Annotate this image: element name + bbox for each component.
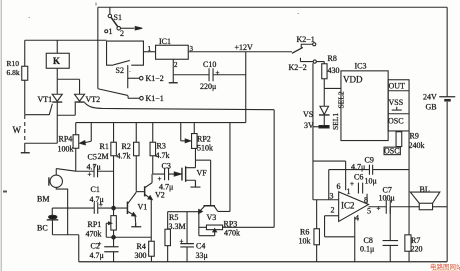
svg-text:IC1: IC1 [159,37,171,46]
svg-text:+: + [98,240,102,248]
svg-text:BM: BM [37,195,49,204]
svg-text:VS: VS [303,110,313,119]
svg-text:VT1: VT1 [38,95,53,104]
svg-text:K: K [53,56,60,66]
svg-text:V2: V2 [155,191,165,200]
svg-text:R10: R10 [7,59,20,68]
svg-text:C9: C9 [365,156,374,165]
svg-text:10k: 10k [299,237,311,246]
svg-text:VDD: VDD [343,75,363,85]
svg-text:6: 6 [337,182,341,191]
svg-text:470k: 470k [224,229,240,238]
svg-text:R6: R6 [300,228,309,237]
svg-text:BC: BC [37,224,48,233]
svg-text:C6: C6 [354,173,363,182]
svg-text:2: 2 [120,29,124,38]
svg-text:RP1: RP1 [88,220,102,229]
svg-text:240k: 240k [409,141,425,150]
svg-text:V1: V1 [138,203,148,212]
svg-text:C1: C1 [91,185,100,194]
svg-text:+: + [88,171,92,179]
svg-text:W: W [13,125,22,135]
svg-text:SEL1: SEL1 [331,113,340,130]
svg-text:33μ: 33μ [196,251,208,260]
svg-text:R1: R1 [100,142,109,151]
svg-text:470k: 470k [86,230,102,239]
svg-text:4.7k: 4.7k [156,151,170,160]
svg-text:RP2: RP2 [197,135,211,144]
svg-text:0.1μ: 0.1μ [360,245,374,254]
svg-text:+: + [180,238,184,246]
svg-text:K1−1: K1−1 [146,94,164,103]
svg-text:5: 5 [367,207,371,216]
svg-text:VSS: VSS [389,98,404,107]
svg-text:4.7k: 4.7k [117,152,131,161]
svg-text:+12V: +12V [235,43,254,52]
svg-text:8: 8 [364,196,368,205]
svg-text:C5: C5 [88,153,97,162]
svg-text:S2: S2 [116,66,124,75]
svg-text:C10: C10 [203,60,216,69]
svg-text:4.7μ: 4.7μ [351,163,365,172]
svg-text:V3: V3 [207,213,217,222]
svg-text:R8: R8 [328,54,337,63]
svg-text:1: 1 [109,27,113,36]
svg-text:R5: R5 [169,213,178,222]
svg-text:R9: R9 [410,132,419,141]
svg-text:220μ: 220μ [200,82,216,91]
svg-text:430: 430 [328,66,340,75]
svg-text:+: + [350,180,354,188]
svg-text:24V: 24V [423,93,437,102]
svg-text:VF: VF [197,169,208,178]
svg-text:GB: GB [426,103,437,112]
svg-text:VT2: VT2 [86,95,101,104]
svg-text:3.3M: 3.3M [169,222,186,231]
svg-text:OSC: OSC [384,147,400,156]
svg-text:1: 1 [148,45,152,53]
svg-text:IC2: IC2 [341,201,355,211]
svg-text:SEL2: SEL2 [337,91,346,108]
svg-text:+: + [99,201,103,209]
svg-text:1: 1 [347,187,351,196]
svg-text:2: 2 [174,61,178,69]
svg-text:2M: 2M [98,152,109,161]
svg-text:100k: 100k [58,145,74,154]
svg-text:K2−2: K2−2 [289,63,307,72]
svg-text:+: + [377,205,381,213]
svg-text:+: + [216,69,220,77]
svg-text:S1: S1 [114,13,122,22]
svg-text:K2−1: K2−1 [297,35,315,44]
svg-text:OSC: OSC [388,117,404,126]
svg-text:R4: R4 [137,242,146,251]
svg-text:IC3: IC3 [355,62,367,71]
svg-text:C4: C4 [196,242,205,251]
svg-text:C3: C3 [162,162,171,171]
svg-text:10μ: 10μ [365,177,377,186]
svg-text:2: 2 [331,206,335,215]
svg-text:BL: BL [420,185,430,194]
svg-text:R2: R2 [122,142,131,151]
svg-text:3: 3 [330,192,334,201]
svg-text:3: 3 [190,45,194,53]
svg-text:RP4: RP4 [59,135,73,144]
svg-text:100μ: 100μ [379,194,395,203]
svg-text:300: 300 [135,251,147,260]
svg-text:3V: 3V [304,121,314,130]
svg-text:220: 220 [411,245,423,254]
svg-text:4: 4 [355,214,359,223]
svg-text:6.8k: 6.8k [7,68,20,77]
svg-text:R3: R3 [157,142,166,151]
svg-text:OUT: OUT [389,82,406,91]
svg-text:4.7μ: 4.7μ [90,251,104,260]
svg-text:K1−2: K1−2 [146,74,164,83]
svg-text:510k: 510k [197,144,213,153]
svg-text:RP3: RP3 [224,220,238,229]
